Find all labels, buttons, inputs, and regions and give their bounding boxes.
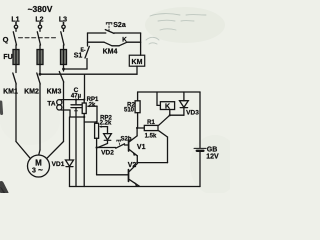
svg-text:2.2k: 2.2k bbox=[100, 121, 112, 127]
contact KM4 label bbox=[103, 49, 118, 56]
contact KM3 label bbox=[47, 89, 62, 96]
svg-text:KM2: KM2 bbox=[24, 89, 39, 96]
switch S2b actuator bbox=[117, 140, 121, 146]
wire V1 collector bbox=[136, 128, 138, 136]
wire row2 left bbox=[88, 41, 105, 43]
switch Q label bbox=[3, 35, 9, 44]
motor lead phase2 bbox=[39, 150, 40, 155]
transistor V2 bbox=[129, 164, 140, 187]
wire node R1 left bbox=[137, 127, 144, 129]
motor lead phase3 bbox=[47, 142, 64, 159]
wire RP1 bottom to RP2 bbox=[84, 121, 96, 123]
svg-text:FU: FU bbox=[3, 54, 12, 61]
resistor R1 label bbox=[147, 120, 155, 126]
svg-text:KM4: KM4 bbox=[103, 49, 118, 56]
wire R1 right to V2 collector bbox=[137, 131, 167, 163]
svg-text:Q: Q bbox=[3, 35, 9, 44]
current transformer TA label bbox=[47, 101, 55, 108]
L2 supply arrow and terminal bbox=[38, 22, 41, 28]
resistor R1 bbox=[144, 125, 158, 130]
node L3 fuse bottom bbox=[62, 65, 65, 71]
contact K label bbox=[122, 37, 127, 44]
switch Q pole 2 bbox=[37, 29, 40, 50]
svg-text:3: 3 bbox=[32, 167, 36, 174]
switch S2a actuator bbox=[106, 23, 112, 31]
switch Q linkage dashed bbox=[19, 37, 59, 39]
relay K coil feed bbox=[157, 92, 160, 105]
contact KM2 bbox=[37, 65, 40, 151]
wire K bottom to R1 bbox=[159, 115, 170, 125]
svg-text:K: K bbox=[122, 37, 127, 44]
battery GB label bbox=[206, 147, 219, 161]
wire control rail top bbox=[88, 32, 141, 34]
battery GB bbox=[194, 92, 206, 187]
svg-text:VD2: VD2 bbox=[101, 150, 114, 157]
fuse FU phase2 bbox=[37, 50, 43, 65]
coil KM box bbox=[129, 55, 144, 66]
relay coil K box bbox=[160, 102, 174, 110]
diode VD2 bbox=[97, 127, 112, 148]
fuse FU label bbox=[3, 54, 12, 61]
switch Q pole 3 bbox=[61, 29, 64, 50]
relay coil K label bbox=[165, 104, 170, 111]
potentiometer RP2 label bbox=[100, 116, 113, 127]
diode VD3 label bbox=[186, 110, 199, 117]
capacitor C plus sign bbox=[75, 109, 78, 112]
switch S2b label bbox=[120, 137, 131, 143]
resistor R2 bbox=[135, 92, 140, 128]
current transformer TA winding bbox=[57, 100, 62, 110]
potentiometer RP1 wiper bbox=[87, 105, 97, 122]
motor M bbox=[28, 155, 50, 177]
contact KM3 bbox=[59, 69, 63, 142]
transistor V1 label bbox=[137, 144, 146, 151]
svg-text:VD3: VD3 bbox=[186, 110, 199, 117]
motor lead phase1 bbox=[16, 142, 31, 159]
potentiometer RP1 bbox=[82, 100, 86, 187]
wire S1 branch bbox=[64, 59, 88, 70]
coil KM label bbox=[132, 59, 143, 66]
svg-text:TA: TA bbox=[47, 101, 55, 108]
diode VD1 bbox=[66, 117, 74, 187]
switch S2a blade bbox=[105, 30, 114, 34]
potentiometer RP1 label bbox=[87, 97, 99, 108]
potentiometer RP2 wiper bbox=[99, 126, 108, 128]
contact K blade bbox=[119, 42, 127, 46]
svg-text:KM: KM bbox=[132, 59, 143, 66]
svg-text:~: ~ bbox=[38, 165, 43, 174]
L1 supply arrow and terminal bbox=[14, 22, 17, 28]
contact KM1 label bbox=[3, 89, 18, 96]
diode VD1 label bbox=[52, 161, 65, 168]
switch S1 label bbox=[74, 53, 83, 60]
capacitor C label bbox=[71, 87, 82, 100]
wire TA secondary top bbox=[61, 99, 85, 101]
switch S1 bbox=[85, 33, 89, 58]
svg-text:1.5k: 1.5k bbox=[145, 134, 157, 140]
svg-text:510: 510 bbox=[124, 107, 135, 113]
wire TA secondary bottom bbox=[61, 110, 84, 117]
contact KM4 blade bbox=[104, 42, 112, 46]
wire V2 base line bbox=[97, 148, 128, 175]
wire to KM coil bbox=[140, 33, 142, 55]
junction dots bbox=[75, 99, 171, 164]
wire bottom rail bbox=[70, 186, 201, 188]
wire control return bbox=[40, 73, 137, 75]
wire row2 mid bbox=[112, 45, 119, 47]
diode VD2 label bbox=[101, 150, 114, 157]
fuse FU phase3 bbox=[61, 50, 67, 65]
phase L3 label bbox=[59, 17, 67, 24]
diode VD3 bbox=[180, 92, 189, 115]
phase L1 label bbox=[11, 17, 19, 24]
motor M label bbox=[32, 159, 43, 175]
svg-text:GB: GB bbox=[207, 147, 218, 154]
supply label ~380V bbox=[28, 4, 53, 14]
svg-text:12V: 12V bbox=[206, 154, 219, 161]
faint pencil marks bbox=[146, 14, 206, 44]
wire K coil bottom bbox=[170, 110, 184, 116]
switch Q pole 1 bbox=[13, 29, 16, 50]
potentiometer RP2 bbox=[95, 122, 99, 148]
svg-text:VD1: VD1 bbox=[52, 161, 65, 168]
contact KM1 bbox=[13, 65, 16, 142]
transistor V1 bbox=[129, 136, 138, 156]
svg-text:KM1: KM1 bbox=[3, 89, 18, 96]
resistor R1 value bbox=[145, 134, 157, 140]
svg-text:S1: S1 bbox=[74, 53, 83, 60]
switch S2a label bbox=[113, 22, 126, 29]
scan smudge corner bbox=[0, 184, 6, 194]
capacitor C bbox=[71, 100, 82, 187]
svg-text:S2a: S2a bbox=[113, 22, 126, 29]
resistor R2 label bbox=[124, 103, 136, 114]
wire top rail 12V bbox=[138, 91, 200, 93]
node L2 control tap bbox=[39, 73, 42, 76]
transistor V2 label bbox=[128, 162, 137, 169]
svg-text:~380V: ~380V bbox=[28, 4, 53, 14]
wire V1 emitter to V2 collector bbox=[136, 156, 138, 163]
wire row2 right bbox=[127, 41, 141, 43]
L3 supply arrow and terminal bbox=[62, 22, 65, 28]
wire KM coil bottom bbox=[136, 66, 138, 74]
contact KM2 label bbox=[24, 89, 39, 96]
phase L2 label bbox=[35, 17, 43, 24]
switch S1 actuator E bbox=[81, 48, 86, 54]
scan smudge left edge bbox=[0, 102, 3, 114]
wire control tap to RP1 node bbox=[84, 74, 86, 99]
svg-text:V1: V1 bbox=[137, 144, 146, 151]
svg-text:KM3: KM3 bbox=[47, 89, 62, 96]
svg-text:V2: V2 bbox=[128, 162, 137, 169]
svg-text:2k: 2k bbox=[89, 102, 96, 108]
switch S2b bbox=[97, 144, 128, 148]
fuse FU phase1 bbox=[13, 50, 19, 65]
